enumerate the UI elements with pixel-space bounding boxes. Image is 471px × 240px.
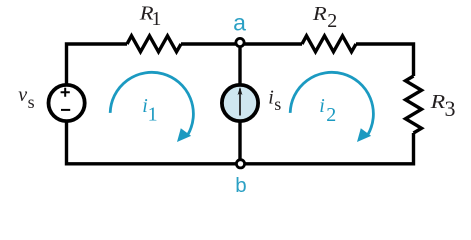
svg-text:2: 2 (326, 104, 336, 126)
svg-text:a: a (233, 10, 246, 36)
svg-text:1: 1 (148, 104, 158, 126)
node b (236, 160, 244, 168)
svg-text:2: 2 (327, 10, 337, 32)
svg-text:b: b (235, 174, 246, 197)
wire top-right corner (356, 44, 414, 76)
resistor R1 (127, 36, 181, 52)
vs minus sign (61, 109, 70, 111)
resistor R2 (302, 36, 356, 52)
svg-text:1: 1 (151, 8, 161, 30)
wire top-left segment (67, 44, 128, 84)
resistor R3 (406, 76, 422, 133)
wire node b to bottom-left corner (67, 123, 237, 164)
wire current source to node b (238, 121, 241, 160)
svg-text:i: i (319, 95, 325, 117)
mesh current arrow i1 (110, 72, 193, 142)
node a (236, 38, 244, 46)
svg-text:s: s (28, 92, 35, 112)
svg-text:v: v (18, 84, 27, 106)
wire node a to R2 (244, 42, 302, 45)
wire R1 to node a (181, 42, 236, 45)
svg-text:s: s (274, 94, 281, 114)
svg-text:i: i (268, 87, 274, 109)
is arrow (239, 89, 241, 116)
current source is (222, 85, 258, 121)
wire node a down to current source (238, 47, 241, 85)
voltage source vs (49, 85, 85, 121)
svg-text:R: R (312, 3, 327, 25)
svg-text:3: 3 (445, 96, 456, 121)
mesh current arrow i2 (290, 72, 373, 142)
wire bottom-right corner (245, 133, 414, 164)
vs plus sign (61, 88, 70, 97)
svg-text:R: R (429, 91, 445, 113)
